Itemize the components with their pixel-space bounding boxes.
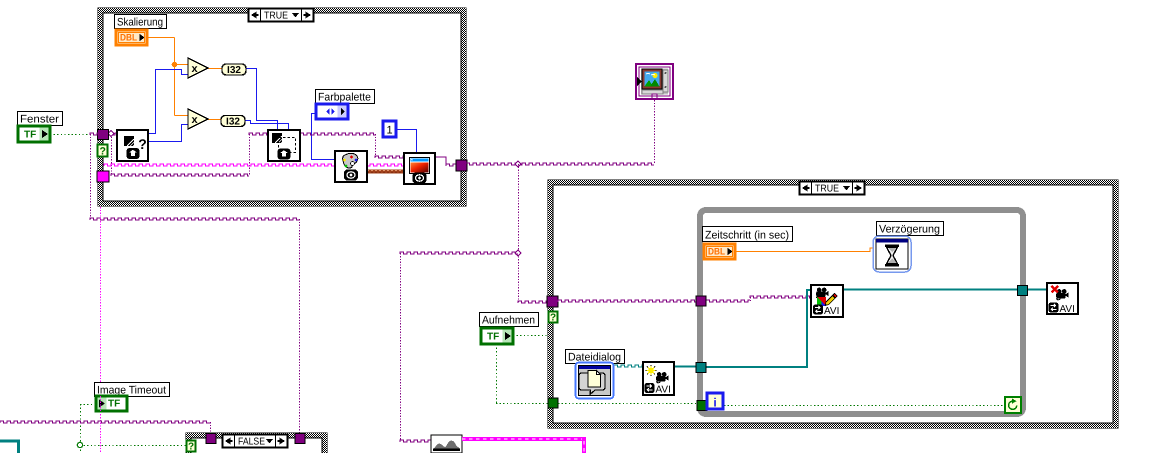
label Fenster [18,112,63,126]
IMAQ WindDraw node [404,153,435,184]
control terminal Aufnehmen TF [481,328,513,344]
junction on purple wire near tunnel [108,131,114,137]
wire: magenta picture wire across case 1 [104,164,404,166]
label Image Timeout [95,383,170,397]
wire: teal inside loop to AVI write [706,290,811,367]
svg-text:TF: TF [108,399,120,410]
label Dateidialog [566,350,625,364]
image display terminal (top) [636,64,673,99]
junction on orange wire [172,62,178,68]
wire: teal wavy Dateidialog to AVI create [614,365,643,367]
svg-text:Verzögerung: Verzögerung [879,224,940,236]
case 1 selector TRUE [249,9,314,22]
svg-text:AVI: AVI [656,385,671,396]
svg-text:TF: TF [24,130,36,141]
case 2 selector terminal ? [549,312,558,323]
wire: purple dotted down-left of case 1 [90,133,98,135]
svg-text:TRUE: TRUE [264,11,288,22]
control terminal DBL Skalierung [116,30,147,45]
I32 coercion bubble 2 [221,116,245,127]
wire: orange DBL from Skalierung to multipliers [147,37,175,39]
svg-text:Aufnehmen: Aufnehmen [482,315,535,327]
AVI close node [1047,283,1078,314]
wire: purple into FALSE case left tunnel [0,421,210,423]
tunnel: teal (loop left border) [696,363,706,373]
indicator terminal Image Timeout TF [96,396,127,411]
wire: blue from image info node to multiplier inputs [148,70,188,134]
svg-text:x: x [191,114,198,126]
tunnel: purple (loop left border) [696,296,706,306]
case 3 selector FALSE [223,435,288,448]
wire: blue Farbpalette to palette node [312,114,336,160]
control terminal Farbpalette (enum) [316,104,348,119]
wire: purple WindDraw output to right tunnel [435,157,446,165]
wire: magenta vertical over TF [100,396,102,411]
junction green wire [77,442,82,447]
svg-text:?: ? [99,146,105,158]
file dialog express node [576,363,614,399]
svg-text:x: x [191,63,198,75]
label Aufnehmen [480,313,539,327]
wire: green inside case 2 to while loop [558,403,697,405]
wire: orange multiply outputs to I32 coercions [208,68,222,70]
svg-text:AVI: AVI [1060,304,1075,315]
svg-text:1: 1 [386,125,392,137]
tunnel: green (loop left border) [697,401,707,411]
tunnel: purple image (left border case 2) [547,296,558,307]
wire: orange Zeitschritt to Wait [735,248,874,252]
control terminal Fenster TF [18,126,50,142]
svg-text:AVI: AVI [824,306,839,317]
svg-text:i: i [713,396,716,410]
IMAQ GetPalette node [335,151,367,182]
case 2 selector TRUE [800,182,865,195]
label Skalierung [115,15,167,29]
tunnel: purple left (case 3 top border) [206,434,216,444]
svg-text:DBL: DBL [708,247,725,258]
multiply node 1 [188,58,208,78]
svg-text:FALSE: FALSE [238,437,265,448]
case structure 1 border (TRUE case, top-left) [98,8,466,206]
wire: pink picture wire from histogram [462,437,586,441]
tunnel: magenta (left border case 1) [97,171,109,182]
I32 coercion bubble 1 [222,64,246,75]
wire: blue constant 1 to WindDraw [396,130,417,154]
wire: purple trunk from case1 tunnel to case2 [466,163,654,165]
svg-text:Farbpalette: Farbpalette [318,92,371,104]
case structure 3 border (FALSE case, bottom) [186,433,327,458]
svg-text:Fenster: Fenster [20,114,59,126]
tunnel: green boolean (left border case 2) [548,398,558,408]
svg-text:I32: I32 [226,117,240,128]
case 3 selector terminal ? [187,441,196,452]
wire: blue I32 outputs to set-size node [246,69,278,131]
svg-text:TF: TF [487,332,499,343]
wire: green boolean Image Timeout [80,404,96,406]
histogram / waveform node [431,435,462,453]
wire: teal AVI refnum bottom-left corner [0,441,19,453]
Wait (ms) hourglass node [873,236,911,272]
multiply node 2 [188,109,208,129]
AVI write frame node [811,285,843,317]
iteration terminal i [707,393,723,409]
IMAQ SetImageSize node [268,130,300,161]
wire: teal AVI write to AVI close [843,289,1047,291]
while loop border [700,210,1023,414]
wire: brown RGB cluster palette to WindDraw [367,170,404,174]
wire: IMAQ image purple from tunnel to nodes [108,133,117,135]
wire: purple from display terminal down [654,100,656,164]
wire: purple inside loop to AVI write [706,300,750,302]
svg-text:?: ? [550,313,556,324]
label Zeitschritt (in sec) [703,227,793,242]
constant 1 [383,121,396,137]
case 1 selector terminal ? [98,145,108,157]
svg-text:Skalierung: Skalierung [117,17,163,29]
AVI create node [643,362,674,395]
IMAQ GetImageInfo node [117,130,148,161]
svg-text:Zeitschritt (in sec): Zeitschritt (in sec) [705,230,789,242]
svg-text:DBL: DBL [120,33,137,44]
wire: teal AVI create to loop tunnel [674,366,696,368]
label Verzoegerung [877,222,944,236]
wire: green Aufnehmen to case 2 selector [513,335,549,337]
tunnel: IMAQ image input (left border case 1) [98,130,109,140]
tunnel: teal (loop right border) [1018,286,1028,296]
wire: green boolean Fenster to case 1 [50,134,89,136]
label Farbpalette [316,90,375,104]
wire: purple to histogram node [400,256,402,441]
svg-text:I32: I32 [227,65,241,76]
wire: magenta vertical to bottom [100,207,102,453]
loop condition terminal [1005,397,1021,413]
svg-text:TRUE: TRUE [815,184,839,195]
tunnel: IMAQ image output (right border case 1) [456,160,467,171]
tunnel: purple right (case 3 top border) [295,434,305,444]
case structure 2 border (TRUE case, right) [548,180,1118,428]
svg-text:?: ? [138,136,147,152]
wire: green to loop condition [706,405,1005,407]
svg-text:?: ? [188,442,194,453]
control terminal DBL Zeitschritt [704,244,735,259]
wire: purple inside case 2 to while loop [558,300,696,302]
